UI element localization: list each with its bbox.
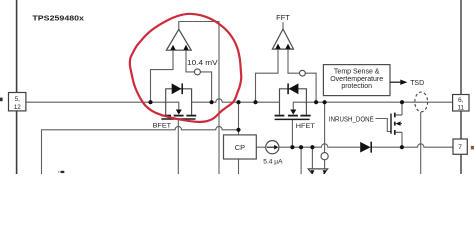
cut-off pin label mark left edge — [0, 98, 3, 102]
transistor Q1 BFET body arrow — [176, 110, 182, 115]
svg-text:6,: 6, — [458, 97, 464, 104]
amp U2 input arrowheads — [275, 44, 290, 49]
current source I2 on OUT sense line — [321, 153, 328, 160]
svg-text:Temp Sense &: Temp Sense & — [334, 69, 380, 76]
wire: dashed kelvin line from ellipse down — [420, 112, 422, 174]
svg-text:HFET: HFET — [296, 123, 315, 130]
junction dots on main rail — [148, 100, 404, 149]
wire: inrush FET drain to rail — [401, 102, 403, 115]
transistor Q2 HFET body diode loop — [280, 89, 307, 115]
svg-text:5.4 µA: 5.4 µA — [263, 158, 283, 165]
transistor Q2 HFET body arrow — [290, 110, 296, 115]
wire: OUT sense line from rail x=324.6 through small source to bottom comparator — [324, 102, 326, 169]
svg-text:TSD: TSD — [410, 80, 424, 87]
svg-text:10.4 mV: 10.4 mV — [187, 58, 218, 67]
svg-text:Overtemperature: Overtemperature — [330, 76, 383, 83]
wire: CP box bottom stub — [238, 159, 240, 174]
diode D2 HFET body — [289, 83, 299, 94]
voltage source V2 FFT offset — [300, 70, 306, 76]
right chip border — [460, 0, 462, 174]
wire: vertical from bottom-wire node x=301.1 down — [300, 147, 302, 174]
voltage source V1 10.4 mV — [194, 69, 200, 75]
wire: bottom wire CP to 5.4uA source — [256, 146, 265, 148]
wire: bottom wire source to diode (hop over x=324.6) — [279, 144, 360, 147]
svg-text:7: 7 — [458, 144, 462, 151]
wire: second row line from lower-left box to CP node (hops over x=178.3 and x=219) — [42, 126, 239, 174]
pin box IN 5,12 — [9, 93, 26, 111]
wire: FFT amp output stub — [282, 22, 284, 29]
transistor Q1 BFET gate bar — [161, 118, 195, 120]
op-amp U2 FFT comparator — [272, 29, 293, 49]
svg-text:11: 11 — [458, 105, 465, 112]
junction dots on bottom wire — [290, 145, 294, 149]
svg-text:FFT: FFT — [276, 15, 290, 22]
amp U3 input arrowheads — [310, 170, 326, 174]
transistor Q3 body arrow — [395, 121, 400, 125]
TSD output arrow — [390, 81, 401, 83]
wire: HFET gate vertical down to bottom wire — [291, 120, 293, 147]
block Temp Sense & Overtemperature protection — [323, 65, 390, 96]
svg-text:TPS259480x: TPS259480x — [32, 14, 84, 23]
wire: INRUSH_DONE gate elbow — [376, 119, 392, 132]
left chip border — [16, 0, 18, 174]
cut-off text mark bottom left — [60, 171, 64, 173]
transistor Q2 HFET contact bars — [275, 115, 311, 117]
wire: BFET gate vertical down — [177, 120, 179, 174]
wire: FFT amp right input via offset source down to rail tap — [288, 49, 316, 102]
svg-text:protection: protection — [341, 83, 372, 90]
op-amp U3 bottom comparator (clipped) — [308, 169, 328, 181]
junction dot on second row line — [236, 128, 240, 132]
amp U1 input arrowheads — [170, 45, 188, 50]
wire: main rail IN segment to BFET body corner — [26, 102, 179, 110]
wire: amp1 left input elbow down to rail tap — [151, 50, 174, 102]
transistor Q3 inrush-done FET — [390, 114, 392, 134]
transistor Q2 HFET gate bar — [275, 118, 310, 120]
wire: amp1 output top wire and long vertical drop at x=219 — [179, 22, 219, 175]
current source I1 5.4 uA — [266, 141, 279, 154]
red hand-drawn annotation circle — [130, 14, 241, 122]
block CP charge pump — [224, 135, 257, 159]
wire: FFT amp left input elbow down to rail tap — [256, 49, 279, 102]
diode D1 BFET body — [172, 83, 182, 94]
node: dashed kelvin ellipse at OUT — [415, 92, 428, 112]
svg-text:CP: CP — [235, 143, 245, 152]
wire: main rail HFET body corner to OUT pin — [293, 102, 452, 110]
svg-text:12: 12 — [14, 104, 22, 111]
wire: bottom wire diode to pin 7 (hop over x=420.7) — [371, 144, 453, 147]
wire: inrush FET source to bottom wire — [401, 132, 403, 147]
svg-text:INRUSH_DONE: INRUSH_DONE — [329, 117, 374, 124]
wire: gate drive vertical from rail to CP (x=238.5) — [238, 102, 240, 135]
wire: main rail BFET right leg to HFET left leg (hop over x=219) — [192, 99, 280, 102]
wire: vertical from bottom-wire node x=312.4 to bottom comparator — [311, 147, 313, 169]
cut-off pin label mark right edge — [471, 146, 474, 150]
diode D3 on bottom wire — [360, 142, 370, 153]
wire: amp1 right input to 10.4mV source and down to rail tap — [186, 50, 212, 102]
transistor Q1 BFET body diode loop — [166, 89, 192, 115]
pin box OUT 6,11 — [453, 95, 469, 112]
op-amp U1 BFET current-sense amp — [166, 29, 191, 50]
svg-text:BFET: BFET — [153, 122, 172, 129]
svg-text:5,: 5, — [15, 96, 21, 103]
transistor Q1 BFET contact bars — [161, 115, 196, 117]
pin box 7 — [453, 139, 467, 154]
